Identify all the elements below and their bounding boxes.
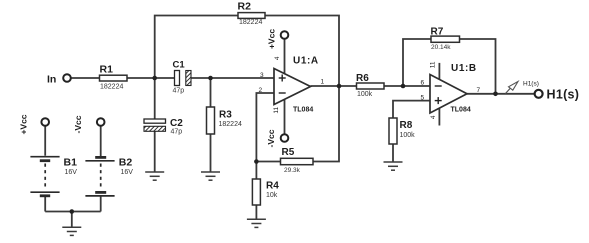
wire U1:B pin5 to R8 (393, 101, 430, 118)
ground (C2) (145, 172, 164, 180)
wire U1:A output to R6 (311, 85, 357, 87)
resistor R6 (356, 73, 384, 98)
battery B1 (30, 156, 77, 196)
svg-text:B1: B1 (64, 156, 78, 168)
svg-text:10k: 10k (266, 192, 278, 199)
svg-text:29.3k: 29.3k (284, 167, 301, 174)
wire R8 to ground (392, 144, 394, 162)
wire U1:A pin4 to +Vcc (284, 39, 286, 74)
resistor R1 (100, 63, 128, 90)
ground (R8) (384, 162, 403, 170)
svg-text:+Vcc: +Vcc (267, 29, 277, 49)
svg-text:100k: 100k (357, 91, 373, 98)
wire R4 to ground (255, 205, 257, 219)
svg-text:R3: R3 (219, 109, 232, 120)
svg-text:7: 7 (477, 87, 481, 94)
wire R7 right riser to output (460, 39, 496, 94)
svg-text:182224: 182224 (100, 83, 123, 90)
op-amp U1:B (421, 61, 481, 119)
svg-text:4: 4 (430, 115, 437, 119)
node A junction R1/C1/C2/R2 (152, 76, 157, 81)
wire U1:B pin11 stub (438, 63, 440, 80)
wire R2 right to output riser (265, 16, 339, 87)
svg-text:47p: 47p (173, 88, 185, 95)
wire B2 top (100, 127, 102, 157)
wire C1 to U1:A pin3 (191, 77, 274, 79)
svg-text:U1:B: U1:B (451, 63, 477, 74)
wire In to R1 (72, 77, 100, 79)
node F junction output/R7 (493, 92, 498, 97)
+Vcc terminal (battery) (19, 114, 49, 134)
resistor R3 (207, 107, 242, 134)
node G rail junction (70, 209, 75, 214)
svg-text:5: 5 (421, 94, 425, 101)
battery B2 (85, 156, 133, 196)
wire C2 branch down (154, 78, 156, 119)
svg-text:182224: 182224 (239, 19, 262, 26)
svg-text:+Vcc: +Vcc (19, 114, 29, 134)
probe H1(s) (506, 81, 539, 94)
svg-text:TL084: TL084 (451, 107, 471, 114)
wire B1 bottom (44, 197, 46, 212)
capacitor C2 (144, 118, 183, 135)
svg-text:20.14k: 20.14k (431, 44, 451, 51)
svg-text:100k: 100k (400, 132, 416, 139)
op-amp U1:A (259, 56, 325, 114)
wire R1 to C1 (127, 77, 175, 79)
resistor R8 (389, 118, 415, 144)
svg-text:TL084: TL084 (293, 107, 313, 114)
svg-text:16V: 16V (65, 169, 78, 176)
+Vcc terminal (U1:A) (267, 29, 289, 49)
svg-text:R7: R7 (431, 26, 444, 37)
svg-text:2: 2 (259, 87, 263, 94)
resistor R4 (252, 179, 279, 205)
capacitor C1 (173, 59, 192, 94)
node C junction pin2/R5/R4 (254, 159, 259, 164)
wire battery bottom rail (45, 211, 100, 213)
terminal In (63, 74, 71, 82)
terminal H1(s) (535, 88, 580, 102)
svg-text:R2: R2 (238, 0, 252, 12)
svg-text:R6: R6 (356, 73, 369, 84)
svg-text:182224: 182224 (219, 121, 242, 128)
svg-text:1: 1 (321, 78, 325, 85)
-Vcc terminal (U1:A) (266, 129, 288, 147)
ground (R4) (247, 219, 266, 227)
svg-text:R8: R8 (400, 120, 413, 131)
svg-text:H1(s): H1(s) (547, 88, 580, 102)
-Vcc terminal (battery) (73, 115, 104, 133)
svg-text:R5: R5 (282, 147, 295, 158)
wire R5 to output riser (313, 86, 339, 162)
resistor R5 (281, 147, 314, 174)
node B junction C1/R3 (208, 76, 213, 81)
wire U1:B output to terminal (467, 93, 535, 95)
svg-text:11: 11 (273, 107, 280, 114)
svg-text:B2: B2 (119, 156, 133, 168)
resistor R7 (431, 26, 460, 51)
ground (R3) (201, 172, 220, 180)
svg-text:3: 3 (260, 72, 264, 79)
wire node to R4 (255, 162, 257, 180)
svg-text:-Vcc: -Vcc (73, 115, 83, 133)
svg-text:-Vcc: -Vcc (266, 129, 276, 147)
wire R7 feedback left riser (403, 39, 431, 86)
svg-text:R1: R1 (100, 63, 114, 75)
svg-text:11: 11 (430, 61, 437, 68)
wire R3 to ground (210, 134, 212, 172)
wire R3 branch down (210, 78, 212, 107)
svg-text:16V: 16V (121, 169, 134, 176)
wire B2 bottom (100, 197, 102, 212)
resistor R2 (238, 0, 266, 26)
svg-text:In: In (47, 73, 56, 85)
wire U1:B pin4 stub (438, 108, 440, 125)
svg-text:4: 4 (274, 56, 281, 60)
svg-text:R4: R4 (266, 181, 279, 192)
svg-text:C1: C1 (173, 59, 186, 70)
wire rail to ground stub (71, 212, 73, 227)
wire U1:A pin2 to feedback node (256, 93, 274, 162)
node E junction R6/R7 riser (401, 84, 406, 89)
svg-text:6: 6 (421, 80, 425, 87)
svg-text:U1:A: U1:A (293, 56, 319, 67)
wire node to R2 top-left riser (155, 16, 238, 79)
wire B1 top (44, 127, 46, 156)
svg-text:H1(s): H1(s) (523, 81, 539, 88)
wire R6 to U1:B pin6 (384, 85, 430, 87)
wire node to R5 (256, 161, 280, 163)
wire U1:A pin11 to -Vcc (284, 99, 286, 134)
wire C2 to ground (154, 132, 156, 172)
node D output U1:A junction (337, 84, 342, 89)
ground (battery rail) (62, 227, 81, 235)
svg-text:47p: 47p (171, 128, 183, 135)
